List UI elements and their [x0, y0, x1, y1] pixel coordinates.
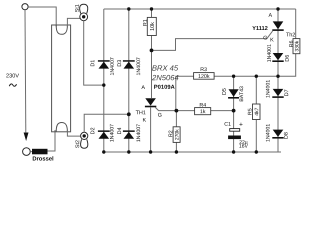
wire bottom rail [104, 151, 281, 153]
label R5 [248, 109, 252, 115]
wire D1 D2 column [103, 9, 105, 152]
junction node gate R2 R3 [175, 109, 179, 113]
label St1 [75, 4, 79, 12]
tube bottom filament arc [56, 123, 67, 132]
label D4 [117, 128, 121, 134]
fluorescent tube outline [52, 25, 71, 132]
arrow mains continuation [24, 133, 29, 142]
junction node mid rail D5 [232, 75, 235, 78]
label C1 [225, 122, 231, 126]
label D3 [117, 60, 121, 66]
junction node mid rail R5 [255, 75, 258, 78]
wire top rail [104, 8, 296, 10]
note 2N5064 [152, 75, 178, 80]
label R2 [169, 131, 173, 137]
resistor R1 [147, 17, 156, 35]
label 230V [6, 74, 19, 78]
junction node St2 bridge [127, 112, 131, 116]
junction node St1 bridge [102, 83, 105, 86]
connector St1 plug [80, 4, 88, 13]
diode D5 [229, 89, 239, 97]
resistor R3 [194, 73, 215, 80]
junction node bottom rail C1 [232, 150, 235, 153]
label 1N4007 D4 [136, 124, 140, 142]
capacitor C1 negative plate [228, 136, 241, 140]
resistor R4 [195, 108, 211, 115]
value 22u C1 [239, 140, 247, 145]
resistor R2 [173, 127, 180, 143]
connector St2 plug [81, 139, 88, 148]
label G Th2 [263, 36, 267, 40]
tube top-right pin to St1 [67, 18, 80, 26]
connector St1 socket circle [80, 13, 88, 21]
label D1 [91, 60, 95, 66]
wire bottom circle to choke [30, 151, 32, 153]
label Y1112 [252, 26, 267, 30]
label 1N4007 D3 [136, 58, 140, 76]
mains terminal bottom circle [23, 148, 31, 156]
label R4 [200, 103, 206, 107]
value 16V C1 [239, 144, 248, 148]
label D8 [284, 132, 288, 138]
resistor R5 [253, 104, 261, 120]
label Drossel [33, 156, 53, 160]
junction node top rail Th2 [276, 7, 279, 10]
connector St2 socket circle [81, 132, 88, 139]
wire jog R1 to Th2 gate [152, 31, 273, 50]
wire St1 down to bridge mid node [84, 21, 104, 85]
junction node R1 jog [150, 49, 154, 53]
diode D6 [273, 53, 284, 60]
value 10k R1 [150, 22, 154, 30]
capacitor C1 positive plate [230, 129, 240, 132]
label 1N4001 D6 [267, 44, 271, 62]
tube top filament arc [56, 25, 67, 34]
resistor R6 [293, 39, 300, 54]
label 1N4007 D1 [110, 58, 114, 76]
label R3 [201, 67, 207, 71]
value 270k R2 [175, 129, 179, 140]
junction node top rail D3 [127, 7, 130, 10]
label 1N4001 D8 [266, 124, 270, 142]
note BRX 45 [152, 65, 178, 70]
label 1N4001 D7 [266, 80, 270, 98]
label St2 [75, 140, 79, 148]
label G Th1 [158, 113, 162, 117]
label R6 [289, 41, 293, 47]
junction node mid rail D7 [276, 75, 279, 78]
label P0109A [154, 85, 174, 89]
wire Th2 D6 D7 D8 column [277, 9, 279, 152]
value 330k R6 [295, 41, 299, 52]
label R1 [143, 19, 147, 25]
label BAT43 [239, 86, 243, 101]
value 120k R3 [198, 74, 209, 78]
label 1N4007 D2 [110, 124, 114, 142]
diode D1 [99, 62, 110, 69]
wire D3 D4 column [128, 9, 130, 152]
wire R5 column [255, 76, 257, 152]
wire R1 column and Th1 anode [151, 9, 153, 98]
label TH1 [136, 111, 146, 115]
wire mains left down [24, 10, 27, 132]
tube bottom-right pin to St2 [67, 130, 80, 136]
diode D4 [124, 132, 135, 139]
wire D5 C1 column [233, 76, 235, 152]
junction node bottom rail D4 [127, 150, 130, 153]
junction node bottom rail R2 [175, 150, 178, 153]
value 1k R4 [200, 109, 205, 113]
label Th2 [286, 32, 295, 36]
diode D2 [99, 132, 110, 139]
junction node bottom rail D2 [102, 150, 105, 153]
thyristor Th1 [145, 98, 156, 105]
wire R6 top column [295, 9, 297, 39]
wire St2 up to bridge mid node [84, 114, 129, 132]
diode D8 [273, 130, 284, 137]
wire Th1 gate line [155, 107, 233, 110]
label D7 [284, 90, 288, 96]
label K Th2 [271, 38, 274, 42]
value 4k7 R5 [255, 108, 259, 116]
mains terminal top circle [22, 4, 28, 10]
junction node D5 cathode [232, 109, 236, 113]
wire choke to tube pin [48, 130, 56, 151]
thyristor Th2 [273, 21, 284, 29]
diode D7 [273, 89, 284, 96]
diode D3 [124, 62, 135, 69]
label D5 [222, 88, 226, 94]
wire R2 column [175, 111, 177, 152]
label D2 [91, 128, 95, 134]
label A Th2 [269, 13, 273, 17]
label D6 [285, 55, 289, 61]
junction node top rail R1 [150, 7, 153, 10]
wire Th1 cathode column [150, 107, 152, 152]
wire mid rail from R6 bottom to gate node [176, 54, 296, 111]
junction node bottom rail Th1 K [149, 150, 152, 153]
label A Th1 [141, 85, 145, 89]
label ac wave [9, 84, 16, 86]
label plus C1 [239, 123, 242, 126]
wire mains top to tube pin [28, 7, 56, 27]
label K Th1 [143, 118, 146, 122]
junction node bottom rail R5 [255, 150, 258, 153]
choke Drossel black box [32, 149, 48, 155]
